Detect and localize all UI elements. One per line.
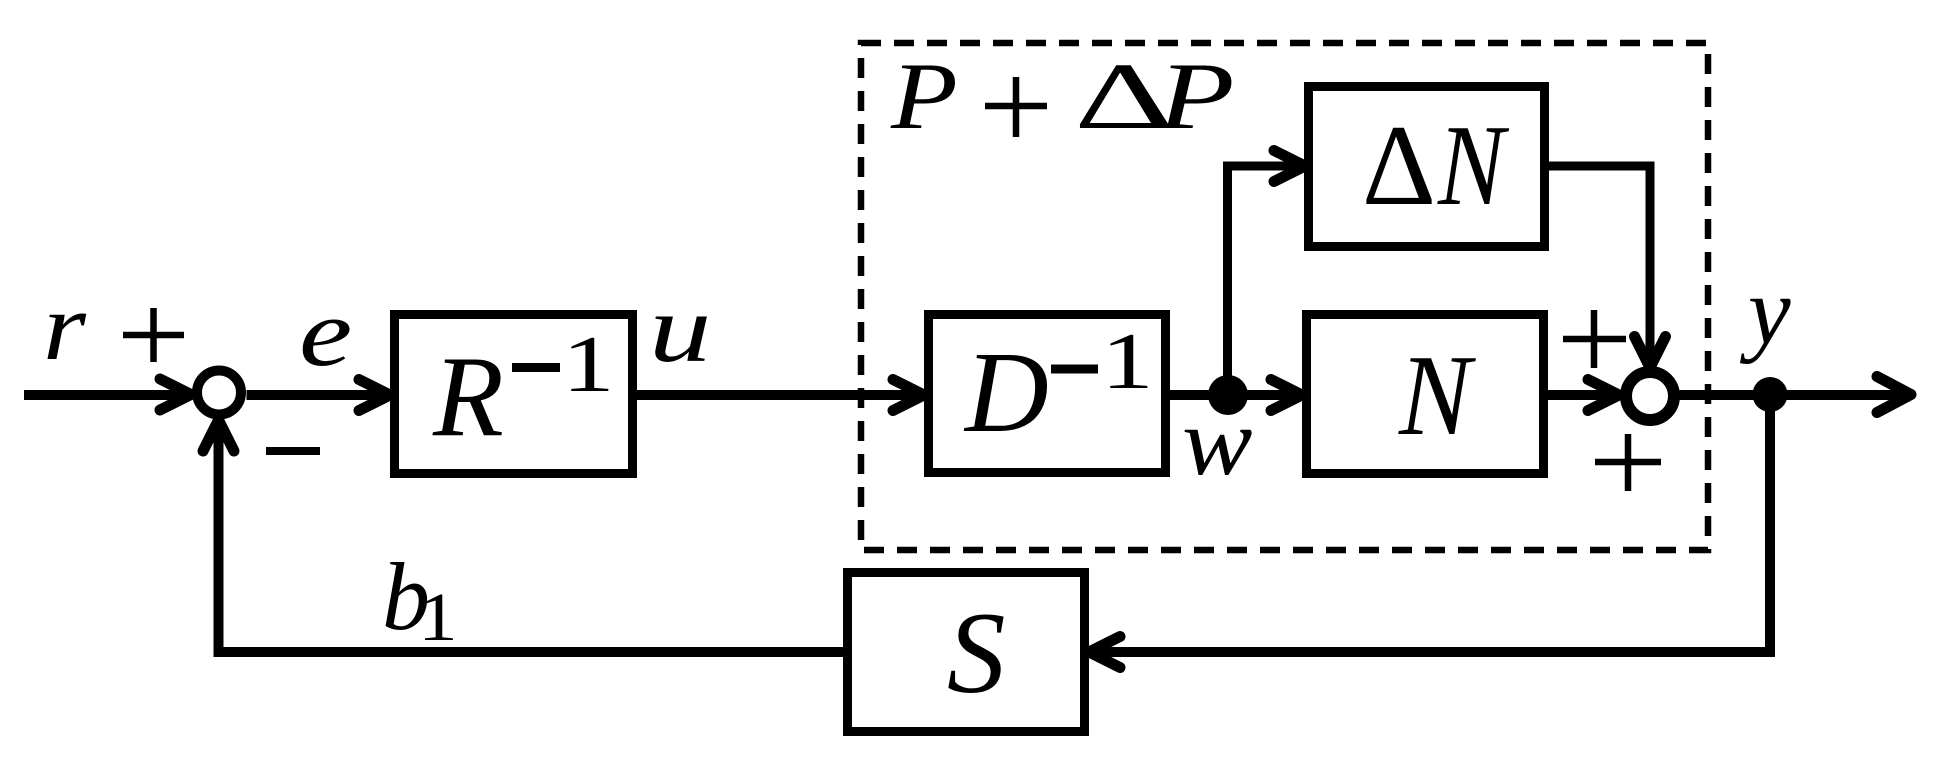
svg-text:e: e xyxy=(299,279,352,386)
label + (below-left of right summing junction) xyxy=(1595,434,1661,491)
arrowhead into Delta N xyxy=(1274,151,1305,182)
arrowhead into N xyxy=(1271,380,1302,411)
wire: feedback from y down and left into S xyxy=(1092,395,1770,653)
dashed box P + Delta P xyxy=(861,43,1708,550)
wire: output y xyxy=(1680,390,1909,400)
wire: D^-1 to node w xyxy=(1170,390,1228,400)
arrowhead into D^-1 xyxy=(893,380,924,411)
arrowhead output xyxy=(1877,377,1911,413)
block R^-1 xyxy=(395,315,633,474)
wire: e from summing junction to R^-1 xyxy=(247,390,388,400)
arrowhead down into right summing junction xyxy=(1635,337,1666,368)
arrowhead into S xyxy=(1089,637,1120,668)
wire: feedback from S left and up into left summing junction xyxy=(219,423,844,652)
label minus (below wire, right of summing junction) xyxy=(266,447,320,455)
svg-text:1: 1 xyxy=(418,580,458,656)
node: right summing junction circle xyxy=(1626,372,1674,420)
label + (top-left of right summing junction) xyxy=(1563,310,1626,368)
wire: input r into left summing junction xyxy=(24,390,188,400)
arrowhead into R^-1 xyxy=(359,380,390,411)
svg-text:u: u xyxy=(649,276,711,382)
svg-text:S: S xyxy=(947,589,1006,718)
wire: N output into right summing junction xyxy=(1548,390,1616,400)
label + (above input, left of summing junction) xyxy=(123,308,184,362)
node w dot xyxy=(1208,375,1248,415)
svg-text:R: R xyxy=(432,333,504,461)
block Delta N xyxy=(1309,87,1545,247)
svg-text:P: P xyxy=(1157,44,1235,149)
wire: Delta N output down into right summing junction xyxy=(1549,166,1650,364)
arrowhead into left summing junction xyxy=(160,379,191,410)
svg-text:N: N xyxy=(1398,331,1476,459)
svg-text:N: N xyxy=(1437,102,1510,230)
wire: node w to N xyxy=(1228,390,1299,400)
node y dot xyxy=(1753,377,1788,412)
wire: u from R^-1 to D^-1 xyxy=(637,390,922,400)
svg-text:r: r xyxy=(43,275,87,381)
svg-text:1: 1 xyxy=(1101,316,1154,406)
block S xyxy=(848,573,1085,732)
wire: branch from node w up to Delta N xyxy=(1228,166,1302,395)
svg-text:P: P xyxy=(890,44,958,149)
svg-text:1: 1 xyxy=(562,319,615,409)
svg-text:Δ: Δ xyxy=(1362,102,1436,229)
node: left summing junction circle xyxy=(197,371,241,415)
svg-text:D: D xyxy=(963,329,1049,457)
arrowhead up into left summing junction xyxy=(203,420,234,451)
svg-text:w: w xyxy=(1182,388,1252,495)
block N xyxy=(1307,315,1544,474)
arrowhead into right summing junction xyxy=(1588,380,1619,411)
block D^-1 xyxy=(929,315,1166,473)
